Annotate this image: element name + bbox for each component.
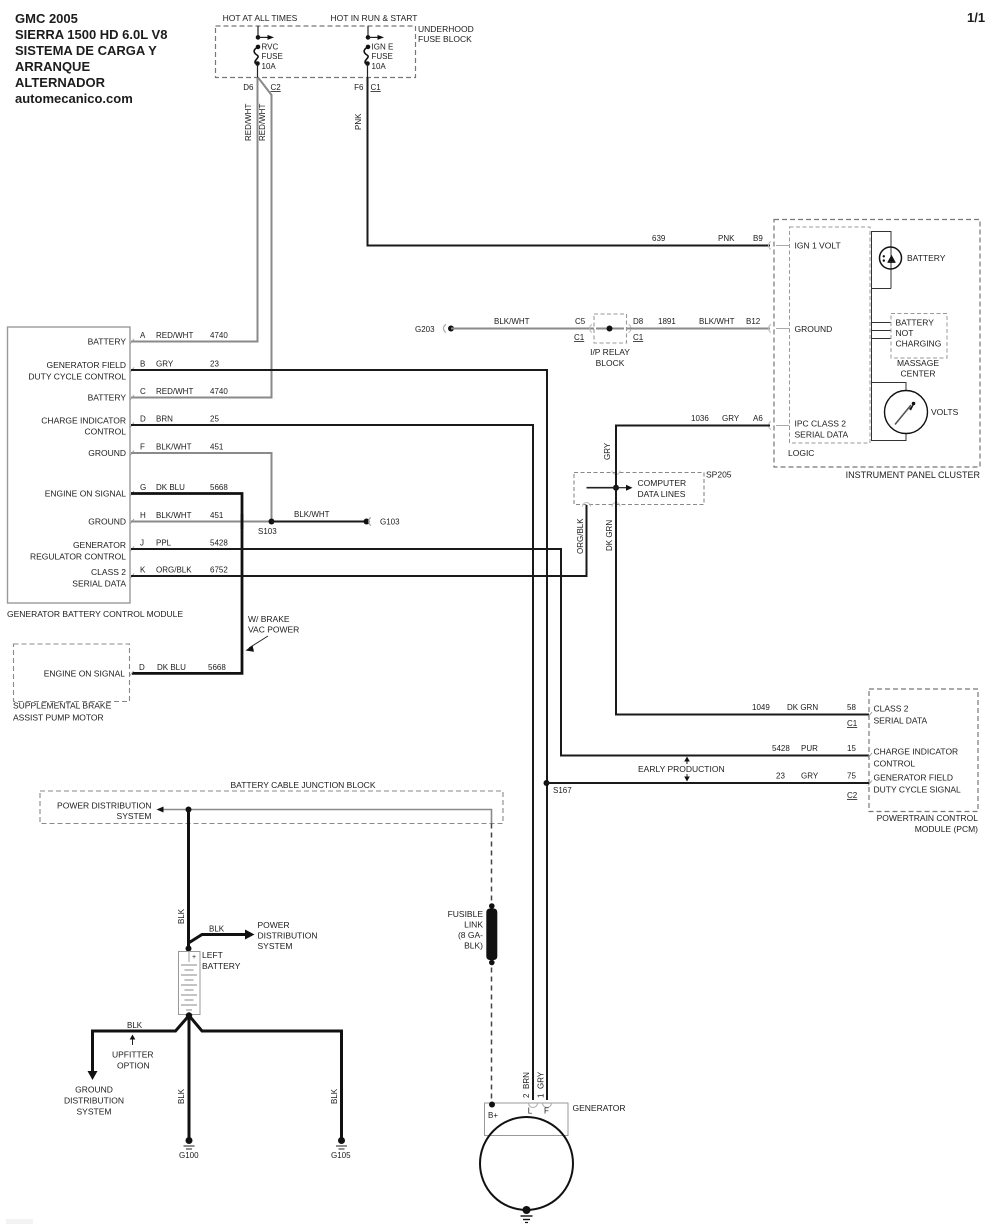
svg-text:C1: C1 — [574, 333, 585, 342]
svg-text:A6: A6 — [753, 414, 763, 423]
svg-text:D6: D6 — [243, 83, 254, 92]
svg-text:G103: G103 — [380, 518, 400, 527]
svg-text:BLK): BLK) — [464, 941, 483, 951]
svg-text:UNDERHOOD: UNDERHOOD — [418, 24, 474, 34]
wire battery cable (junction block to fusible link to generator B+) — [491, 824, 493, 1105]
svg-text:S167: S167 — [553, 786, 572, 795]
svg-text:automecanico.com: automecanico.com — [15, 91, 133, 106]
splice S103 — [269, 519, 275, 525]
svg-text:C: C — [140, 387, 146, 396]
svg-text:C2: C2 — [271, 83, 282, 92]
svg-text:I/P RELAY: I/P RELAY — [590, 347, 630, 357]
svg-text:GENERATOR: GENERATOR — [73, 540, 126, 550]
svg-text:5428: 5428 — [210, 539, 228, 548]
svg-text:58: 58 — [847, 703, 856, 712]
corner watermark — [6, 1219, 33, 1224]
svg-text:BLK/WHT: BLK/WHT — [294, 510, 330, 519]
svg-text:BATTERY: BATTERY — [907, 253, 946, 263]
note EARLY PRODUCTION — [638, 757, 725, 782]
pin A label — [140, 331, 228, 340]
IPC pin A6 connector — [769, 422, 790, 430]
pin B label — [140, 360, 219, 369]
svg-text:451: 451 — [210, 511, 224, 520]
left battery — [179, 946, 241, 1019]
svg-text:4740: 4740 — [210, 331, 228, 340]
svg-text:SP205: SP205 — [706, 470, 732, 480]
svg-text:5428: 5428 — [772, 744, 790, 753]
svg-text:C1: C1 — [847, 719, 858, 728]
svg-text:GENERATOR FIELD: GENERATOR FIELD — [874, 773, 954, 783]
svg-text:S103: S103 — [258, 527, 277, 536]
svg-text:J: J — [140, 539, 144, 548]
svg-text:BATTERY: BATTERY — [202, 961, 241, 971]
fusible link (8 GA BLK) F1 — [448, 903, 498, 965]
svg-text:FUSE: FUSE — [262, 52, 283, 61]
svg-text:5668: 5668 — [208, 663, 226, 672]
svg-text:BLK: BLK — [209, 925, 225, 934]
ground G103 — [364, 518, 401, 527]
svg-text:MASSAGE: MASSAGE — [897, 358, 939, 368]
svg-text:GRY: GRY — [537, 1071, 546, 1089]
svg-text:LINK: LINK — [464, 920, 483, 930]
pin H label — [140, 511, 224, 520]
svg-text:(8 GA-: (8 GA- — [458, 930, 483, 940]
svg-text:GRY: GRY — [156, 360, 174, 369]
svg-text:SYSTEM: SYSTEM — [258, 941, 293, 951]
svg-text:SYSTEM: SYSTEM — [77, 1107, 112, 1117]
pin F label — [140, 443, 224, 452]
wire GRY 1036 (IPC A6 to SP205) — [603, 414, 770, 485]
svg-text:HOT AT ALL TIMES: HOT AT ALL TIMES — [223, 13, 298, 23]
svg-text:A: A — [140, 331, 146, 340]
wire BRN 25 (pin D to generator L) — [131, 425, 533, 1100]
svg-text:DK BLU: DK BLU — [157, 663, 186, 672]
wire BLK/WHT 451 (pin H to S103) — [131, 521, 272, 523]
fuse RVC 10A — [254, 26, 283, 78]
svg-text:BLK: BLK — [177, 1088, 186, 1104]
svg-text:ORG/BLK: ORG/BLK — [576, 518, 585, 554]
note W/ BRAKE VAC POWER — [246, 614, 300, 652]
svg-text:F: F — [140, 443, 145, 452]
svg-text:DK GRN: DK GRN — [605, 520, 614, 551]
svg-text:BLK: BLK — [177, 908, 186, 924]
svg-text:RED/WHT: RED/WHT — [156, 387, 193, 396]
IPC internal bus line — [872, 232, 907, 441]
wire BLK branch to power distribution system — [189, 920, 318, 951]
svg-text:INSTRUMENT PANEL CLUSTER: INSTRUMENT PANEL CLUSTER — [846, 470, 981, 480]
svg-text:DISTRIBUTION: DISTRIBUTION — [258, 931, 318, 941]
pin G label — [140, 483, 228, 492]
svg-text:6752: 6752 — [210, 566, 228, 575]
svg-text:IPC CLASS 2: IPC CLASS 2 — [795, 419, 847, 429]
svg-text:HOT IN RUN & START: HOT IN RUN & START — [331, 13, 418, 23]
svg-text:BRN: BRN — [156, 415, 173, 424]
wire RED/WHT 4740 (fuse D6 to GBCM pin C) — [131, 78, 272, 398]
svg-text:RED/WHT: RED/WHT — [258, 104, 267, 141]
svg-text:BLK: BLK — [330, 1088, 339, 1104]
svg-text:FUSIBLE: FUSIBLE — [448, 909, 484, 919]
svg-text:CHARGE INDICATOR: CHARGE INDICATOR — [41, 416, 126, 426]
svg-text:H: H — [140, 511, 146, 520]
svg-text:POWER: POWER — [258, 920, 290, 930]
wire ORG/BLK 6752 (pin K to SP205) — [131, 505, 587, 576]
svg-text:CLASS 2: CLASS 2 — [91, 567, 126, 577]
svg-text:10A: 10A — [372, 62, 387, 71]
svg-text:GROUND: GROUND — [795, 324, 833, 334]
svg-text:LOGIC: LOGIC — [788, 448, 814, 458]
supplemental pin D label — [139, 663, 226, 672]
wire BLK/WHT 1851 (relay D8 to IPC B12) — [627, 317, 771, 342]
svg-text:NOT: NOT — [896, 328, 914, 338]
svg-text:B: B — [140, 360, 145, 369]
svg-text:CLASS 2: CLASS 2 — [874, 704, 909, 714]
svg-text:SERIAL DATA: SERIAL DATA — [874, 716, 928, 726]
svg-text:ORG/BLK: ORG/BLK — [156, 566, 192, 575]
wire BLK/WHT (G203 to I/P relay block C5) — [451, 317, 594, 342]
svg-text:BRN: BRN — [522, 1072, 531, 1089]
svg-text:SUPPLEMENTAL BRAKE: SUPPLEMENTAL BRAKE — [13, 701, 112, 711]
svg-text:FUSE: FUSE — [372, 52, 393, 61]
svg-text:OPTION: OPTION — [117, 1061, 150, 1071]
svg-text:1036: 1036 — [691, 414, 709, 423]
svg-text:C2: C2 — [847, 791, 858, 800]
wire BLK (battery to G100) — [177, 1016, 189, 1139]
svg-text:UPFITTER: UPFITTER — [112, 1050, 154, 1060]
svg-text:VOLTS: VOLTS — [931, 407, 959, 417]
wire DK BLU 5668 (pin G to supplemental brake pump) — [131, 494, 242, 674]
svg-text:GRY: GRY — [722, 414, 740, 423]
svg-text:23: 23 — [210, 360, 219, 369]
svg-text:G105: G105 — [331, 1151, 351, 1160]
wire DK GRN 1049 (SP205 to PCM 58) — [605, 490, 869, 728]
svg-text:SYSTEM: SYSTEM — [117, 811, 152, 821]
battery telltale indicator — [880, 247, 946, 269]
svg-text:SERIAL DATA: SERIAL DATA — [72, 579, 126, 589]
IPC pin B9 connector — [769, 242, 790, 250]
svg-text:REGULATOR CONTROL: REGULATOR CONTROL — [30, 552, 126, 562]
generator — [480, 1102, 626, 1211]
svg-text:B9: B9 — [753, 234, 763, 243]
PCM pin 75 wire labels (23 GRY) — [776, 772, 858, 801]
svg-text:ALTERNADOR: ALTERNADOR — [15, 75, 106, 90]
svg-text:DUTY CYCLE CONTROL: DUTY CYCLE CONTROL — [28, 372, 126, 382]
svg-text:ENGINE ON SIGNAL: ENGINE ON SIGNAL — [45, 489, 127, 499]
svg-text:ASSIST PUMP MOTOR: ASSIST PUMP MOTOR — [13, 713, 104, 723]
svg-text:POWER DISTRIBUTION: POWER DISTRIBUTION — [57, 801, 151, 811]
svg-text:F: F — [544, 1107, 549, 1116]
svg-text:GROUND: GROUND — [88, 448, 126, 458]
svg-text:SISTEMA DE CARGA Y: SISTEMA DE CARGA Y — [15, 43, 157, 58]
svg-text:MODULE (PCM): MODULE (PCM) — [915, 824, 978, 834]
svg-text:BLK/WHT: BLK/WHT — [156, 443, 192, 452]
pin K label — [140, 566, 228, 575]
svg-text:GRY: GRY — [801, 772, 819, 781]
svg-text:BATTERY CABLE JUNCTION BLOCK: BATTERY CABLE JUNCTION BLOCK — [230, 780, 375, 790]
wire BLK (battery to G105) — [189, 1016, 342, 1139]
svg-text:B12: B12 — [746, 317, 761, 326]
svg-text:DK GRN: DK GRN — [787, 703, 818, 712]
svg-text:BLK/WHT: BLK/WHT — [699, 317, 735, 326]
wire DK BLU (crossing repaint) — [241, 514, 244, 529]
svg-text:DK BLU: DK BLU — [156, 483, 185, 492]
svg-text:23: 23 — [776, 772, 785, 781]
svg-text:K: K — [140, 566, 146, 575]
svg-text:VAC POWER: VAC POWER — [248, 625, 299, 635]
svg-text:PPL: PPL — [156, 539, 172, 548]
pin C label — [140, 387, 228, 396]
svg-text:4740: 4740 — [210, 387, 228, 396]
svg-text:BATTERY: BATTERY — [896, 318, 935, 328]
svg-text:10A: 10A — [262, 62, 277, 71]
svg-text:G100: G100 — [179, 1151, 199, 1160]
svg-text:F6: F6 — [354, 83, 364, 92]
generator battery control module U1 box — [7, 327, 183, 619]
I/P relay block — [590, 314, 631, 368]
svg-text:GROUND: GROUND — [75, 1085, 113, 1095]
svg-text:451: 451 — [210, 443, 224, 452]
instrument panel cluster box — [774, 220, 980, 481]
svg-text:POWERTRAIN CONTROL: POWERTRAIN CONTROL — [877, 813, 979, 823]
svg-text:75: 75 — [847, 772, 856, 781]
svg-text:B+: B+ — [488, 1111, 498, 1120]
computer data lines box SP205 — [574, 470, 732, 507]
svg-text:D: D — [140, 415, 146, 424]
svg-text:+: + — [192, 954, 196, 961]
generator case ground — [521, 1206, 533, 1223]
svg-text:G: G — [140, 483, 146, 492]
svg-text:D: D — [139, 663, 145, 672]
PCM pin 15 wire labels (5428 PUR) — [772, 744, 856, 753]
splice S167 — [544, 780, 573, 795]
ground G203 — [415, 325, 454, 335]
svg-text:PUR: PUR — [801, 744, 818, 753]
svg-text:RED/WHT: RED/WHT — [156, 331, 193, 340]
svg-text:PNK: PNK — [718, 234, 735, 243]
svg-text:PNK: PNK — [354, 113, 363, 130]
svg-text:25: 25 — [210, 415, 219, 424]
svg-text:C1: C1 — [371, 83, 382, 92]
svg-text:EARLY PRODUCTION: EARLY PRODUCTION — [638, 764, 725, 774]
svg-text:ENGINE ON SIGNAL: ENGINE ON SIGNAL — [44, 669, 126, 679]
svg-text:CENTER: CENTER — [901, 369, 936, 379]
volts gauge — [885, 391, 959, 434]
svg-text:BLOCK: BLOCK — [596, 358, 625, 368]
pin J label — [140, 539, 228, 548]
wire PPL 5428 (pin J to PCM 15) — [131, 549, 869, 756]
powertrain control module (PCM) box — [868, 689, 978, 834]
title block — [15, 11, 167, 106]
svg-text:LEFT: LEFT — [202, 950, 223, 960]
svg-text:BATTERY: BATTERY — [88, 393, 127, 403]
svg-text:1891: 1891 — [658, 317, 676, 326]
note UPFITTER OPTION — [112, 1035, 154, 1071]
generator wire labels (2 BRN / 1 GRY) — [522, 1071, 546, 1098]
wire GRY 23 (pin B to S167 to generator F) — [131, 370, 547, 1100]
svg-text:C5: C5 — [575, 317, 586, 326]
svg-text:CHARGE INDICATOR: CHARGE INDICATOR — [874, 747, 959, 757]
svg-text:COMPUTER: COMPUTER — [638, 478, 687, 488]
GBCM pin ticks — [130, 339, 134, 579]
junction node (battery tap) — [186, 807, 192, 813]
svg-text:GMC 2005: GMC 2005 — [15, 11, 78, 26]
svg-text:GROUND: GROUND — [88, 517, 126, 527]
svg-text:GENERATOR: GENERATOR — [573, 1103, 626, 1113]
wire PNK 639 (fuse F6 to IPC B9) — [354, 78, 770, 246]
svg-text:1: 1 — [537, 1093, 546, 1098]
battery cable junction block box — [40, 780, 503, 824]
svg-text:BATTERY: BATTERY — [88, 337, 127, 347]
svg-text:639: 639 — [652, 234, 666, 243]
pin D label — [140, 415, 219, 424]
svg-text:FUSE BLOCK: FUSE BLOCK — [418, 34, 472, 44]
wire BLK/WHT 451 (pin F to S103) — [131, 453, 272, 522]
svg-text:CONTROL: CONTROL — [84, 427, 126, 437]
svg-text:1/1: 1/1 — [967, 10, 985, 25]
svg-text:SERIAL DATA: SERIAL DATA — [795, 430, 849, 440]
svg-text:5668: 5668 — [210, 483, 228, 492]
label ground distribution system — [64, 1085, 124, 1117]
wire BLK (battery to upfitter/ground distribution) — [88, 1016, 190, 1081]
svg-text:DISTRIBUTION: DISTRIBUTION — [64, 1096, 124, 1106]
ground G100 — [179, 1137, 199, 1160]
svg-text:RVC: RVC — [262, 43, 279, 52]
wire RED/WHT 4740 (fuse D6 to GBCM pin A) — [131, 78, 258, 342]
svg-text:SIERRA 1500 HD 6.0L V8: SIERRA 1500 HD 6.0L V8 — [15, 27, 167, 42]
svg-text:L: L — [528, 1107, 533, 1116]
svg-text:BLK/WHT: BLK/WHT — [494, 317, 530, 326]
svg-text:2: 2 — [522, 1093, 531, 1098]
svg-text:W/ BRAKE: W/ BRAKE — [248, 614, 290, 624]
wire BLK/WHT (S103 to G103) — [272, 510, 367, 522]
svg-text:C1: C1 — [633, 333, 644, 342]
svg-text:DUTY CYCLE SIGNAL: DUTY CYCLE SIGNAL — [874, 785, 962, 795]
svg-text:GENERATOR FIELD: GENERATOR FIELD — [46, 360, 126, 370]
svg-text:CHARGING: CHARGING — [896, 339, 942, 349]
svg-text:RED/WHT: RED/WHT — [244, 104, 253, 141]
wire GRY (S167 to PCM 75) — [547, 782, 870, 784]
IPC logic box — [788, 227, 870, 458]
svg-text:BLK/WHT: BLK/WHT — [156, 511, 192, 520]
svg-text:ARRANQUE: ARRANQUE — [15, 59, 90, 74]
svg-text:DATA LINES: DATA LINES — [638, 489, 686, 499]
svg-text:GRY: GRY — [603, 442, 612, 460]
svg-text:CONTROL: CONTROL — [874, 759, 916, 769]
svg-text:15: 15 — [847, 744, 856, 753]
battery not charging message box — [891, 314, 947, 379]
svg-text:IGN E: IGN E — [372, 43, 394, 52]
fuse IGN E 10A — [364, 26, 393, 78]
svg-text:BLK: BLK — [127, 1021, 143, 1030]
supplemental brake assist pump motor box — [13, 644, 134, 723]
svg-text:G203: G203 — [415, 325, 435, 334]
svg-text:D8: D8 — [633, 317, 644, 326]
IPC pin B12 connector — [769, 325, 790, 333]
wire (junction block power distribution) — [157, 807, 492, 824]
underhood fuse block box — [216, 13, 474, 78]
wire BLK battery cable (junction block to left battery) — [177, 810, 189, 951]
ground G105 — [331, 1137, 351, 1160]
svg-text:1049: 1049 — [752, 703, 770, 712]
svg-text:IGN 1 VOLT: IGN 1 VOLT — [795, 241, 841, 251]
svg-text:GENERATOR BATTERY CONTROL MODU: GENERATOR BATTERY CONTROL MODULE — [7, 609, 183, 619]
